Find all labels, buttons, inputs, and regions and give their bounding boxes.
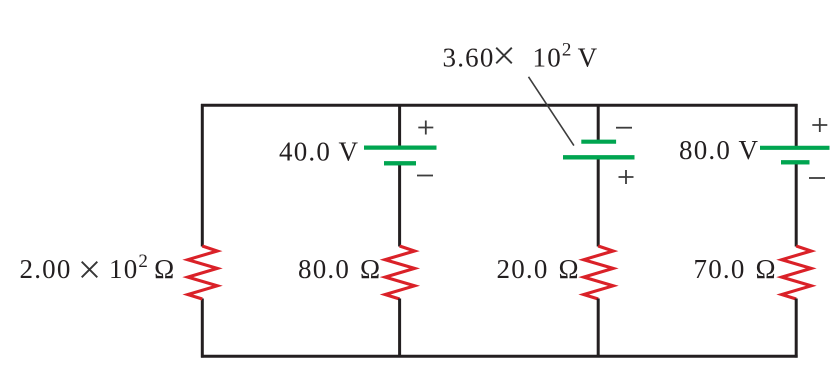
wire branch2 top segment <box>398 104 401 149</box>
label R1 multiplication sign <box>82 262 98 278</box>
svg-text:40.0 V: 40.0 V <box>279 136 359 166</box>
battery B2 short plate <box>384 161 416 165</box>
wire left edge bottom segment <box>201 299 204 358</box>
wire branch3 bottom segment <box>597 299 600 357</box>
svg-text:20.0 Ω: 20.0 Ω <box>497 254 580 284</box>
wire top edge <box>201 104 798 107</box>
svg-text:70.0 Ω: 70.0 Ω <box>694 254 777 284</box>
wire branch3 top segment <box>597 104 600 143</box>
svg-text:80.0 V: 80.0 V <box>679 135 759 165</box>
resistor R3 20 ohm <box>584 246 614 299</box>
callout line to B3 <box>529 77 574 146</box>
battery B3 minus sign <box>616 127 632 129</box>
battery B3 short plate <box>581 140 616 144</box>
wire bottom edge <box>201 355 798 358</box>
wire branch2 bottom segment <box>398 299 401 357</box>
wire branch3 mid segment <box>597 157 600 247</box>
resistor R4 70 ohm <box>782 246 812 299</box>
wire right edge bottom segment <box>795 299 798 358</box>
svg-text:3.60: 3.60 <box>443 43 495 73</box>
wire right edge top segment <box>795 104 798 149</box>
svg-text:102Ω: 102Ω <box>109 251 175 284</box>
wire right edge mid segment <box>795 162 798 247</box>
svg-text:2.00: 2.00 <box>20 254 72 284</box>
label B3 multiplication sign <box>496 48 512 64</box>
battery B2 minus sign <box>417 175 433 177</box>
battery B4 long plate <box>760 146 830 150</box>
wire branch2 mid segment <box>398 163 401 247</box>
battery B2 short plate overpaint <box>384 161 416 165</box>
resistor R2 80 ohm <box>385 246 415 299</box>
battery B3 long plate overpaint <box>563 155 635 159</box>
svg-text:80.0 Ω: 80.0 Ω <box>298 254 381 284</box>
battery B4 short plate <box>781 160 810 164</box>
battery B3 plus sign <box>619 170 634 184</box>
battery B4 minus sign <box>809 177 825 179</box>
resistor R1 2.00e2 ohm <box>188 246 218 299</box>
battery B2 long plate <box>364 146 437 150</box>
battery B2 plus sign <box>418 121 433 135</box>
battery B4 short plate overpaint <box>781 160 810 164</box>
battery B3 long plate <box>563 155 635 159</box>
battery B4 plus sign <box>812 118 827 132</box>
svg-text:102V: 102V <box>533 40 599 73</box>
wire left edge top segment <box>201 104 204 247</box>
